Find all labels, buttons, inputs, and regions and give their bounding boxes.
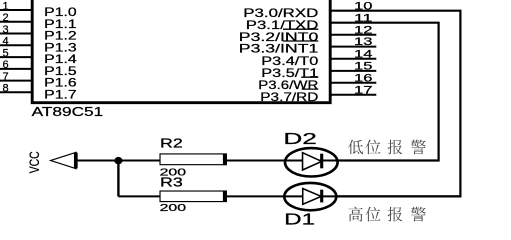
svg-text:12: 12 (354, 24, 372, 36)
resistor R3 right edge (223, 191, 226, 202)
resistor R2 (161, 155, 226, 165)
wire pin 2 stub (0, 21, 32, 23)
wire pin 17 stub (329, 94, 376, 96)
svg-text:R3: R3 (160, 175, 183, 190)
net label 高位报警 (high alarm) (348, 207, 425, 222)
diode D1 (284, 183, 336, 210)
wire pin 15 stub (329, 70, 376, 72)
svg-text:7: 7 (3, 71, 9, 83)
wire VCC to R2 to D2 (76, 160, 439, 162)
svg-text:P3.7/RD: P3.7/RD (260, 90, 318, 104)
svg-text:D2: D2 (283, 131, 317, 148)
svg-text:13: 13 (354, 36, 372, 48)
wire pin 13 stub (329, 46, 376, 48)
svg-text:4: 4 (3, 36, 9, 48)
overline on INT1 (283, 40, 318, 42)
svg-text:2: 2 (3, 12, 9, 24)
svg-text:14: 14 (354, 48, 372, 60)
wire junction to R3 to D1 (118, 195, 460, 197)
wire pin 1 stub (0, 9, 32, 11)
overline on INT0 (283, 28, 318, 30)
svg-text:P1.7: P1.7 (44, 87, 77, 101)
svg-text:VCC: VCC (27, 151, 42, 173)
wire junction vertical (117, 161, 119, 197)
svg-text:1: 1 (3, 0, 9, 12)
diode D2 (285, 148, 338, 176)
wire pin 7 stub (0, 80, 32, 82)
wire pin 3 stub (0, 33, 32, 35)
svg-text:3: 3 (3, 24, 9, 36)
wire pin 16 stub (329, 82, 376, 84)
svg-text:6: 6 (3, 59, 9, 71)
wire pin 8 stub (0, 91, 32, 93)
svg-text:200: 200 (160, 203, 187, 214)
wire pin 4 stub (0, 44, 32, 46)
wire pin 12 stub (329, 34, 376, 36)
svg-text:5: 5 (3, 47, 9, 59)
svg-text:10: 10 (354, 0, 372, 12)
svg-text:D1: D1 (284, 211, 315, 227)
resistor R3 (161, 192, 226, 201)
wire pin 5 stub (0, 56, 32, 58)
svg-text:R2: R2 (160, 136, 183, 151)
wire pin 11 net to D2 row (329, 23, 438, 161)
svg-text:8: 8 (3, 83, 9, 95)
junction node dot (114, 157, 122, 164)
IC U1 AT89C51 body (32, 0, 330, 103)
svg-text:16: 16 (354, 72, 372, 84)
svg-text:AT89C51: AT89C51 (32, 104, 104, 119)
svg-text:17: 17 (354, 84, 372, 96)
wire pin 10 net to D1 row (329, 11, 460, 197)
net label 低位报警 (low alarm) (348, 140, 426, 155)
wire pin 14 stub (329, 58, 376, 60)
svg-text:15: 15 (354, 61, 372, 73)
overline on WR (301, 76, 318, 78)
overline on RD (302, 88, 319, 90)
wire pin 6 stub (0, 68, 32, 70)
resistor R2 right edge (223, 154, 226, 166)
svg-text:11: 11 (354, 12, 372, 24)
